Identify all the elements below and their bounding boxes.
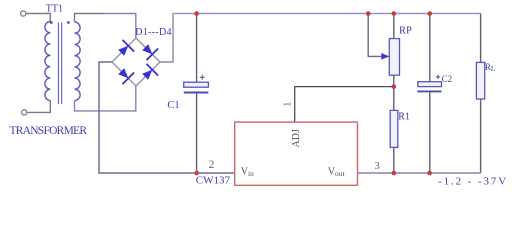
- svg-text:RP: RP: [399, 26, 412, 37]
- svg-text:3: 3: [374, 160, 380, 172]
- svg-text:TT1: TT1: [46, 3, 63, 14]
- svg-text:R1: R1: [398, 112, 410, 123]
- svg-text:ADJ: ADJ: [291, 129, 302, 147]
- svg-text:Vin: Vin: [241, 166, 254, 178]
- svg-text:2: 2: [209, 159, 215, 171]
- svg-text:Vout: Vout: [328, 166, 346, 178]
- svg-text:C2: C2: [442, 74, 453, 84]
- svg-text:CW137: CW137: [196, 175, 231, 187]
- svg-text:1: 1: [282, 102, 293, 107]
- svg-text:TRANSFORMER: TRANSFORMER: [10, 125, 88, 137]
- svg-text:D1---D4: D1---D4: [135, 27, 172, 38]
- svg-text:C1: C1: [167, 100, 179, 111]
- svg-text:-1.2 - -37V: -1.2 - -37V: [438, 175, 508, 187]
- svg-text:RL: RL: [485, 62, 495, 73]
